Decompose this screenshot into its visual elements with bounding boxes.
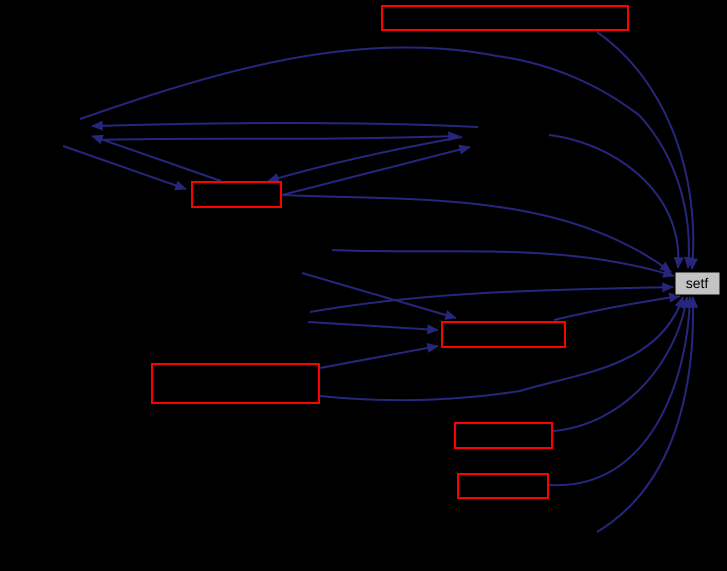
wire bigbox to setf [320, 297, 683, 400]
wire box R1 to node A [92, 136, 221, 181]
wire topbox to setf [597, 32, 693, 269]
wire node E to setf [310, 287, 673, 312]
wire node C to setf [332, 250, 674, 276]
node setf [675, 272, 720, 295]
wire node A to node B [97, 136, 459, 140]
node top box [382, 6, 628, 30]
wire node B to node A [92, 123, 478, 127]
wire bigbox to midbox [320, 346, 438, 368]
wire box5 to setf [553, 297, 687, 431]
wire node A to box R1 [63, 146, 186, 189]
node box5 [455, 423, 552, 448]
wire box6 to setf [549, 297, 690, 485]
wire box R1 to node B [282, 147, 470, 195]
wire node D to midbox [302, 273, 456, 318]
node box R1 [192, 182, 281, 207]
wire midbox to setf [554, 296, 680, 320]
wire box R1 to setf [284, 195, 671, 272]
wire node B to setf [549, 135, 678, 268]
wire node F to setf [597, 297, 693, 532]
node big box [152, 364, 319, 403]
node box6 [458, 474, 548, 498]
svg-text:setf: setf [686, 275, 709, 291]
wire node B to box R1 [268, 137, 462, 181]
wire node A to setf [80, 47, 689, 268]
node mid box [442, 322, 565, 347]
wire node E to midbox [308, 322, 438, 330]
